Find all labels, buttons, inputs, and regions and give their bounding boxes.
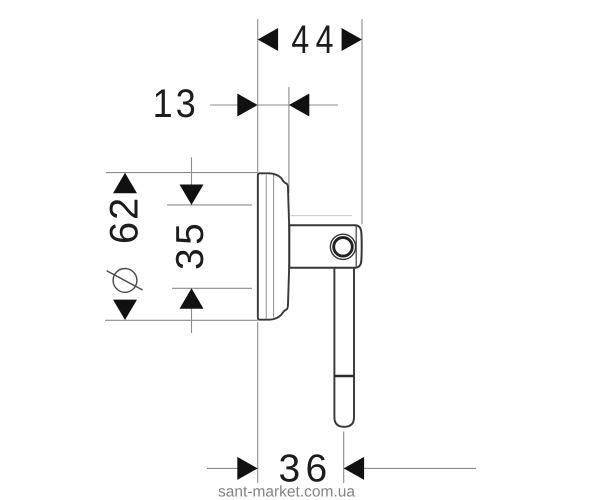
- dimension text 35 (rotated): [169, 220, 212, 270]
- extension line top of 62 (y=172.5): [106, 172, 258, 174]
- dimension 36 right-pointing arrowhead: [237, 457, 257, 480]
- dimension 44 left arrowhead: [258, 28, 278, 51]
- diameter symbol slash: [107, 271, 143, 290]
- svg-text:44: 44: [291, 18, 339, 62]
- rod joint line: [334, 375, 354, 377]
- dimension 35 top arrowhead: [180, 185, 204, 205]
- dimension 44 right arrowhead: [342, 28, 362, 51]
- svg-text:62: 62: [103, 196, 147, 244]
- svg-text:35: 35: [169, 220, 212, 270]
- dimension 35 top leader line: [191, 157, 193, 205]
- extension line left of 36 (x=258 below plate): [257, 322, 259, 483]
- extension line left of 44 (x=258): [257, 19, 259, 173]
- watermark: [218, 484, 355, 500]
- dimension 13 left-pointing arrowhead: [289, 94, 309, 117]
- holder arm outline: [289, 225, 361, 268]
- dimension 62 top arrowhead: [113, 173, 137, 193]
- knob inner ring: [334, 238, 353, 257]
- extension line for 13 (x=289): [288, 87, 290, 193]
- dimension text 44: [291, 18, 339, 62]
- svg-text:sant-market.com.ua: sant-market.com.ua: [218, 484, 355, 500]
- knob outer ring: [330, 234, 355, 259]
- dimension 13 leader line left: [210, 104, 258, 106]
- diameter symbol circle: [113, 269, 137, 293]
- holder arm end-cap contour line: [355, 226, 357, 268]
- escutcheon plate outline: [258, 173, 289, 319]
- dimension 13 right-pointing arrowhead: [237, 94, 257, 117]
- dimension 13 leader line right: [289, 104, 338, 106]
- dimension 62 bottom arrowhead: [113, 300, 137, 320]
- extension line bottom of 62 (y=320): [105, 319, 258, 321]
- dimension text 13: [153, 82, 199, 126]
- dimension 36 leader line left: [207, 467, 258, 469]
- paper holder rod outline: [334, 269, 354, 427]
- dimension 36 leader line right: [344, 467, 476, 469]
- dimension 13 line between arrows: [258, 104, 289, 106]
- extension line top of 35 (y=205): [167, 204, 252, 206]
- dimension text 62 (rotated): [103, 196, 147, 244]
- holder arm faint top line: [291, 215, 353, 217]
- dimension 35 bottom leader line: [191, 288, 193, 333]
- extension line bottom of 35 (y=287.5): [172, 287, 252, 289]
- plate inner profile line 1: [265, 175, 267, 319]
- dimension text 36: [279, 448, 333, 491]
- dimension 35 bottom arrowhead: [180, 288, 204, 308]
- svg-text:13: 13: [153, 82, 199, 126]
- extension line right of 44 (x=362): [361, 19, 363, 224]
- plate inner profile line 2: [273, 175, 275, 318]
- extension line right of 36 (x=344 below rod): [343, 432, 345, 484]
- dimension 36 left-pointing arrowhead: [344, 457, 364, 480]
